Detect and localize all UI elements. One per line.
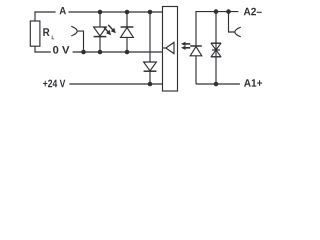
junction node on A2 rail at TVS D5: [214, 9, 219, 14]
diode D2 (reverse protection, anti-parallel): [121, 12, 134, 52]
wire 0V rail to box: [73, 51, 163, 53]
optocoupler light arrows into U1: [181, 42, 190, 50]
junction node on A rail at D2: [125, 10, 130, 15]
junction node on A1 rail at TVS D5: [214, 82, 219, 87]
junction node on 0V rail at jack J1: [81, 50, 86, 55]
LED D4 (optocoupler emitter): [190, 46, 202, 84]
op-amp triangle (amplifier in U1): [163, 47, 166, 49]
LED D1 emission arrows: [104, 25, 116, 35]
LED D1 (indicator): [94, 12, 107, 52]
wire A1 bottom rail: [196, 83, 240, 85]
wire resistor bottom to 0V label: [35, 46, 51, 52]
terminal label A2-: [244, 8, 262, 16]
socket jack J2 (output plug contact): [229, 12, 241, 37]
wire A corner to resistor top: [35, 12, 56, 21]
junction node on 0V rail at LED D1: [98, 50, 103, 55]
node label 0 V: [53, 46, 69, 54]
resistor value label R_L: [43, 28, 49, 36]
junction node on 0V rail at D2: [125, 50, 130, 55]
resistor R_L: [30, 21, 40, 46]
TVS suppressor D5 (bidirectional): [211, 12, 221, 84]
node label A: [60, 7, 67, 14]
junction node on A rail at LED D1: [98, 10, 103, 15]
junction node on A2 rail at jack J2: [226, 9, 231, 14]
diode D3 (clamp A to +24V): [144, 12, 157, 84]
junction node on A rail at D3: [148, 10, 153, 15]
wire +24V rail to box: [69, 83, 162, 85]
junction node on +24V rail at D3: [148, 82, 153, 87]
wire node A to box (top input rail): [69, 11, 163, 13]
terminal label A1+: [244, 79, 262, 86]
wire A2 top rail: [196, 12, 238, 46]
socket jack J1 (input plug contact): [71, 26, 77, 36]
isolation amplifier box U1: [163, 7, 178, 92]
node label +24 V: [43, 80, 65, 88]
wire jack to 0V rail: [77, 31, 83, 52]
